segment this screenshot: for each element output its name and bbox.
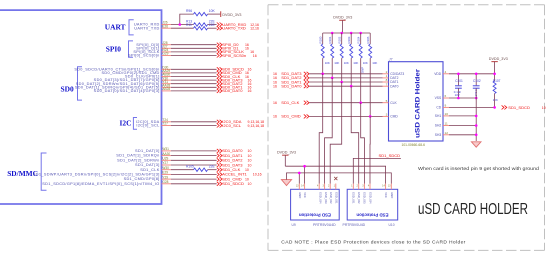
svg-text:SD0: SD0 bbox=[61, 85, 74, 94]
svg-text:10: 10 bbox=[245, 177, 249, 181]
junction bbox=[298, 172, 301, 175]
pin U29 SD1_DAT[2]_SDRWn bbox=[117, 157, 171, 163]
svg-text:3: 3 bbox=[386, 113, 388, 117]
net label SD0_DAT2 bbox=[217, 81, 252, 86]
pin J27 SPI[0]_D[1] bbox=[136, 45, 171, 51]
svg-text:SPI0_SCS0n: SPI0_SCS0n bbox=[222, 53, 246, 58]
svg-text:When card is inserted pin 9 ge: When card is inserted pin 9 get shorted … bbox=[418, 166, 540, 171]
page border (dashed) bbox=[268, 5, 545, 251]
junction bbox=[331, 77, 334, 80]
net label SD0_SDCD bbox=[217, 67, 252, 72]
wire bbox=[171, 47, 217, 49]
wire bbox=[171, 83, 217, 85]
svg-text:UART0_TXD: UART0_TXD bbox=[222, 26, 246, 31]
svg-text:VCC: VCC bbox=[384, 192, 388, 198]
svg-text:R105: R105 bbox=[186, 165, 194, 169]
pin T27 I2C[0]_SCL bbox=[136, 122, 171, 128]
svg-text:10K: 10K bbox=[344, 61, 349, 65]
svg-text:6: 6 bbox=[445, 94, 447, 98]
ground bbox=[471, 142, 481, 147]
svg-text:VSS: VSS bbox=[435, 96, 442, 100]
svg-text:CMD: CMD bbox=[390, 115, 398, 119]
pin AB30 SD0_CLK/GP0[1] bbox=[125, 73, 171, 79]
svg-text:16: 16 bbox=[273, 101, 277, 105]
wire pull-up column bbox=[341, 58, 343, 82]
resistor R11 bbox=[186, 23, 215, 30]
pin 1 DAT2 bbox=[383, 74, 399, 80]
svg-text:R100: R100 bbox=[319, 36, 323, 43]
svg-text:ESD_IO3: ESD_IO3 bbox=[363, 192, 367, 204]
net label SD1_DAT0 bbox=[217, 148, 252, 153]
no-connect X bbox=[334, 177, 337, 180]
net label SD1_CLK bbox=[273, 100, 309, 105]
svg-text:DVDD_3V3: DVDD_3V3 bbox=[277, 150, 296, 154]
svg-text:ESD_IO4: ESD_IO4 bbox=[318, 192, 322, 204]
junction bbox=[321, 73, 324, 76]
pin J28 SPI[0]_D[0] bbox=[136, 41, 171, 47]
pin 6 VSS bbox=[435, 94, 449, 100]
svg-text:10V: 10V bbox=[455, 93, 460, 97]
pin T24 I2C[0]_SDA bbox=[136, 118, 171, 124]
junction bbox=[475, 124, 478, 127]
svg-text:16: 16 bbox=[273, 115, 277, 119]
wire pull-up column bbox=[331, 58, 333, 78]
bracket SD/MMC group bbox=[41, 153, 46, 190]
wire bbox=[309, 115, 382, 117]
wire bbox=[171, 55, 217, 57]
svg-text:GND: GND bbox=[390, 192, 394, 198]
wire SH to ground bbox=[449, 134, 476, 136]
wire bbox=[171, 169, 194, 171]
wire bbox=[309, 77, 382, 79]
processor block body U14 bbox=[0, 10, 162, 204]
net label SD0_DAT3 bbox=[217, 77, 252, 82]
net label SD1_DAT3 bbox=[273, 71, 309, 76]
svg-text:SPI0: SPI0 bbox=[106, 45, 122, 54]
svg-text:10K: 10K bbox=[493, 98, 498, 102]
net label SD1_DAT2 bbox=[273, 75, 309, 80]
svg-text:10K: 10K bbox=[325, 61, 330, 65]
svg-text:SD1_DAT[2]_SDRWn: SD1_DAT[2]_SDRWn bbox=[117, 158, 160, 162]
connector J7 uSD CARD Holder body bbox=[389, 62, 444, 141]
wire bbox=[309, 81, 382, 83]
power DVDD_3V3 bbox=[221, 11, 242, 17]
junction bbox=[331, 32, 334, 35]
svg-text:10: 10 bbox=[248, 159, 252, 163]
bracket UART group bbox=[129, 20, 134, 35]
svg-text:SD0_DAT0: SD0_DAT0 bbox=[222, 88, 243, 93]
wire to ESD bbox=[319, 74, 323, 184]
pin AA28 SD0_DAT[1]_SDIRQn/GP0[4]/SD1_DAT[5] bbox=[75, 84, 171, 90]
wire U9 GND bbox=[298, 173, 300, 184]
net label SD1_SDCD bbox=[502, 105, 546, 110]
svg-text:C101: C101 bbox=[455, 79, 463, 83]
ESD protection U10 body bbox=[347, 189, 398, 220]
junction bbox=[457, 73, 460, 76]
svg-text:101-00660-68-6: 101-00660-68-6 bbox=[402, 143, 426, 147]
wire bbox=[208, 24, 217, 26]
pin G29 SPI[0]_SCS[0]n bbox=[128, 52, 171, 58]
bracket I2C group bbox=[133, 118, 137, 130]
svg-text:10K: 10K bbox=[334, 61, 339, 65]
svg-text:CAD NOTE : Place ESD Protectio: CAD NOTE : Place ESD Protection devices … bbox=[281, 239, 465, 245]
wire bbox=[171, 68, 217, 70]
svg-text:SD0_DAT[0]/SD1_DAT[4]/GP0[3]: SD0_DAT[0]/SD1_DAT[4]/GP0[3] bbox=[94, 89, 160, 93]
pin 7 DAT0 bbox=[383, 82, 399, 88]
wire bbox=[171, 86, 217, 88]
wire ground trunk bbox=[475, 88, 477, 141]
svg-text:uSD CARD Holder: uSD CARD Holder bbox=[415, 69, 422, 138]
svg-text:SD1_SDWP/UART3_DSRn/SPI[0]_SCS: SD1_SDWP/UART3_DSRn/SPI[0]_SCS[2]n/I2C[2… bbox=[33, 173, 160, 177]
pin stub bbox=[368, 184, 370, 190]
net label SD1_DAT1 bbox=[273, 79, 309, 84]
svg-text:PRTR5V0U4D: PRTR5V0U4D bbox=[313, 223, 336, 227]
svg-text:GND: GND bbox=[298, 192, 302, 198]
net label SPI0_SCLK bbox=[217, 49, 254, 54]
wire pull-up column bbox=[369, 58, 371, 116]
wire bbox=[171, 155, 217, 157]
svg-text:CLK: CLK bbox=[390, 101, 397, 105]
net label SPI0_SCS0n bbox=[217, 53, 257, 58]
svg-text:7: 7 bbox=[386, 82, 388, 86]
pin Y29 SD1_CMD/GP0[8] bbox=[124, 175, 171, 181]
junction bbox=[303, 165, 306, 168]
svg-text:ESD_IO3: ESD_IO3 bbox=[324, 192, 328, 204]
svg-text:10: 10 bbox=[445, 112, 449, 116]
wire CD row bbox=[449, 106, 495, 108]
wire to ESD bbox=[330, 82, 342, 184]
svg-text:SD1_DAT[3]: SD1_DAT[3] bbox=[135, 163, 160, 167]
junction bbox=[457, 97, 460, 100]
svg-text:I2C0_SCL: I2C0_SCL bbox=[222, 123, 241, 128]
pin stub bbox=[328, 184, 330, 190]
wire SH to ground bbox=[449, 115, 476, 117]
svg-text:10: 10 bbox=[248, 163, 252, 167]
svg-text:R103: R103 bbox=[347, 36, 351, 43]
net label SD0_CLK bbox=[217, 74, 249, 79]
svg-text:R101: R101 bbox=[328, 36, 332, 43]
net label SD1_CMD bbox=[217, 176, 249, 181]
junction bbox=[359, 32, 362, 35]
wire U9 VCC bbox=[304, 166, 306, 183]
resistor R107 bbox=[493, 74, 501, 108]
power DVDD_3V3 (VDD) bbox=[489, 57, 508, 74]
svg-text:R102: R102 bbox=[338, 36, 342, 43]
svg-text:DVDD_3V3: DVDD_3V3 bbox=[489, 57, 508, 61]
pin E29 SD1_SDWP/UART3_DSRn/SPI[0]_SCS[2]n/I2C[2]_SDA/GP1[3] bbox=[33, 171, 171, 177]
junction bbox=[475, 73, 478, 76]
svg-text:I2C[0]_SCL: I2C[0]_SCL bbox=[136, 124, 160, 128]
wire bbox=[171, 27, 194, 29]
pin D30 SD0_SDCD/UART0_CTSn/SPI[1]_SCS[0]n bbox=[74, 66, 171, 72]
resistor R101 pull-up bbox=[328, 33, 339, 65]
net label UART0_RXD bbox=[217, 22, 259, 27]
bracket SD0 group bbox=[78, 67, 83, 100]
svg-text:U10: U10 bbox=[389, 223, 395, 227]
net label SD1_DAT1 bbox=[217, 153, 252, 158]
pin stub bbox=[334, 184, 336, 190]
svg-text:10: 10 bbox=[248, 182, 252, 186]
junction bbox=[475, 97, 478, 100]
junction bbox=[475, 134, 478, 137]
power DVDD_3V3 (ESD) bbox=[277, 150, 296, 166]
resistor R104 pull-up bbox=[357, 33, 368, 65]
wire bbox=[171, 76, 217, 78]
svg-text:SH1: SH1 bbox=[435, 114, 442, 118]
pin stub bbox=[301, 184, 304, 190]
ground (ESD) bbox=[281, 180, 291, 186]
pin E26 UART0_TXD bbox=[134, 24, 171, 30]
net label SD1_SDCD bbox=[217, 181, 252, 186]
net label SD1_CMD bbox=[273, 114, 309, 119]
ESD protection U9 body bbox=[291, 189, 340, 220]
svg-text:SPI[0]_SCS[0]n: SPI[0]_SCS[0]n bbox=[128, 54, 160, 58]
wire bbox=[171, 72, 217, 74]
net label UART0_TXD bbox=[217, 26, 259, 31]
svg-text:16: 16 bbox=[273, 85, 277, 89]
net label SD1_DAT2 bbox=[217, 158, 252, 163]
svg-text:R11: R11 bbox=[186, 23, 192, 27]
wire bbox=[171, 150, 217, 152]
pin stub bbox=[351, 184, 353, 190]
svg-text:SD1_DAT[0]: SD1_DAT[0] bbox=[135, 149, 160, 153]
net label ACCEL_INT1 bbox=[217, 172, 262, 177]
resistor R105 bbox=[186, 165, 215, 172]
capacitor C101 bbox=[454, 74, 463, 98]
svg-text:R104: R104 bbox=[357, 36, 361, 43]
pin stub bbox=[382, 184, 385, 190]
svg-text:SD1_DAT[1]_SDIRQn: SD1_DAT[1]_SDIRQn bbox=[116, 154, 159, 158]
svg-text:UART: UART bbox=[105, 23, 126, 32]
resistor R103 pull-up bbox=[347, 33, 358, 65]
pin J26 UART0_RXD bbox=[134, 21, 171, 27]
wire pull-up column bbox=[322, 58, 324, 74]
svg-text:SD1_DAT0: SD1_DAT0 bbox=[281, 84, 302, 89]
wire bbox=[171, 79, 217, 81]
svg-text:10,16: 10,16 bbox=[253, 173, 262, 177]
junction bbox=[359, 101, 362, 104]
wire bbox=[171, 51, 217, 53]
pin Y30 SD0_DAT[3]/SD1_DAT[7]/GP0[6] bbox=[94, 76, 171, 82]
svg-text:ESD Protection: ESD Protection bbox=[356, 212, 388, 217]
pin 2 CD/DAT3 bbox=[383, 70, 405, 76]
svg-text:10: 10 bbox=[248, 154, 252, 158]
wire bbox=[208, 27, 217, 29]
pin 4 VDD bbox=[434, 70, 449, 76]
svg-text:SD1_SDCD: SD1_SDCD bbox=[222, 181, 244, 186]
svg-text:DAT0: DAT0 bbox=[390, 84, 398, 88]
svg-text:SD1_CMD: SD1_CMD bbox=[281, 114, 300, 119]
svg-text:16: 16 bbox=[248, 89, 252, 93]
bracket SPI0 group bbox=[129, 41, 134, 57]
junction bbox=[369, 115, 372, 118]
wire bbox=[309, 73, 382, 75]
svg-text:ESD_IO1: ESD_IO1 bbox=[335, 192, 339, 204]
svg-text:ESD_IO4: ESD_IO4 bbox=[368, 192, 372, 204]
net label SD0_DAT1 bbox=[217, 85, 252, 90]
wire 3V3 rail to ESD VCC bbox=[285, 166, 385, 183]
junction bbox=[350, 85, 353, 88]
svg-text:SD1_SDCD/GP1[8]/EDMA_EVT1/SPI[: SD1_SDCD/GP1[8]/EDMA_EVT1/SPI[0]_SCS[1]n… bbox=[42, 182, 159, 186]
resistor R100 pull-up bbox=[319, 33, 330, 65]
net label SD1_CLK bbox=[217, 167, 249, 172]
svg-text:SD1_SDCD: SD1_SDCD bbox=[508, 105, 530, 110]
svg-text:10: 10 bbox=[542, 106, 546, 110]
svg-text:ESD Protection: ESD Protection bbox=[299, 212, 331, 217]
junction bbox=[340, 32, 343, 35]
capacitor C102 bbox=[473, 74, 481, 97]
svg-text:C102: C102 bbox=[473, 79, 481, 83]
svg-text:R96: R96 bbox=[186, 9, 192, 13]
svg-text:PRTR5V0U4D: PRTR5V0U4D bbox=[343, 223, 366, 227]
net label SD0_DAT0 bbox=[217, 88, 252, 93]
pin AA29 SD0_CMD/GP0[2]/SD1_CMD bbox=[101, 69, 171, 75]
svg-text:VCC: VCC bbox=[303, 192, 307, 198]
pin G28 SD1_SDCD/GP1[8]/EDMA_EVT1/SPI[0]_SCS[1]n/TIM4_IO bbox=[42, 180, 171, 186]
wire VDD rail bbox=[449, 73, 495, 75]
net label SD1_DAT3 bbox=[217, 162, 252, 167]
pin Y31 SD0_DAT[2]_SDRWn/SD1_DAT[6]/GP0[5] bbox=[76, 80, 171, 86]
wire bbox=[171, 164, 217, 166]
svg-text:11: 11 bbox=[445, 122, 448, 126]
net label SD1_SDCD (to ESD) bbox=[353, 153, 401, 183]
wire bbox=[171, 159, 217, 161]
svg-text:uSD CARD HOLDER: uSD CARD HOLDER bbox=[418, 201, 528, 218]
svg-text:22E: 22E bbox=[209, 23, 216, 27]
wire bbox=[171, 24, 194, 26]
pin 9 CD bbox=[436, 104, 449, 110]
wire bbox=[171, 121, 217, 123]
pin stub bbox=[388, 184, 391, 190]
svg-text:5: 5 bbox=[386, 99, 388, 103]
pin 11 SH2 bbox=[435, 122, 449, 128]
svg-text:12: 12 bbox=[445, 131, 449, 135]
pin 8 DAT1 bbox=[383, 78, 399, 84]
svg-text:10K: 10K bbox=[363, 61, 368, 65]
pin N24 SPI[0]_SCLK bbox=[133, 48, 171, 54]
svg-text:DNP: DNP bbox=[361, 67, 365, 73]
wire bbox=[208, 13, 221, 15]
net label SD0_CMD bbox=[217, 70, 249, 75]
svg-text:10K: 10K bbox=[372, 61, 377, 65]
power DVDD_3V3 (pull-up rail) bbox=[333, 15, 352, 33]
pin W31 SD1_DAT[0] bbox=[135, 147, 171, 153]
wire to ESD bbox=[351, 86, 359, 183]
junction bbox=[475, 115, 478, 118]
svg-text:10K: 10K bbox=[209, 9, 216, 13]
svg-text:DVDD_3V3: DVDD_3V3 bbox=[333, 15, 352, 19]
svg-text:UART0_TXD: UART0_TXD bbox=[134, 26, 159, 30]
svg-text:SD1_CMD/GP0[8]: SD1_CMD/GP0[8] bbox=[124, 177, 160, 181]
wire bbox=[309, 102, 382, 104]
pin W30 SD1_CLK bbox=[140, 166, 171, 172]
svg-text:VDD: VDD bbox=[434, 72, 442, 76]
resistor R13 bbox=[186, 19, 215, 26]
wire bbox=[171, 125, 217, 127]
svg-text:ESD_IO2: ESD_IO2 bbox=[357, 192, 361, 204]
wire bbox=[171, 173, 217, 175]
net label I2C0_SCL bbox=[217, 123, 264, 128]
pin stub bbox=[357, 184, 359, 190]
svg-text:SD1_CLK: SD1_CLK bbox=[281, 100, 299, 105]
wire to ESD bbox=[325, 78, 333, 184]
pin AA30 SD1_DAT[1]_SDIRQn bbox=[116, 152, 171, 158]
resistor R96 bbox=[186, 9, 215, 16]
svg-text:ESD_IO1: ESD_IO1 bbox=[352, 192, 356, 204]
wire SH to ground bbox=[449, 125, 476, 127]
junction bbox=[493, 106, 496, 109]
pin stub bbox=[296, 184, 299, 190]
junction bbox=[179, 23, 182, 26]
svg-text:U9: U9 bbox=[292, 223, 296, 227]
pin stub bbox=[322, 184, 324, 190]
svg-text:I2C: I2C bbox=[120, 119, 132, 128]
wire VSS to caps bbox=[449, 97, 476, 99]
junction bbox=[493, 73, 496, 76]
svg-text:SH2: SH2 bbox=[435, 124, 442, 128]
resistor R106 pull-up bbox=[366, 33, 377, 65]
wire to ESD bbox=[361, 103, 365, 184]
wire bbox=[171, 90, 217, 92]
svg-text:10: 10 bbox=[248, 149, 252, 153]
pin 12 SH3 bbox=[435, 131, 449, 137]
wire bbox=[171, 178, 217, 180]
wire pull-up column bbox=[350, 58, 352, 86]
wire to ESD bbox=[369, 116, 371, 183]
pin stub bbox=[362, 184, 364, 190]
wire pull-up column bbox=[360, 58, 362, 102]
svg-text:22E: 22E bbox=[209, 165, 216, 169]
resistor R102 pull-up bbox=[338, 33, 349, 65]
pin Y27 SD1_DAT[3] bbox=[135, 161, 171, 167]
svg-text:12,16: 12,16 bbox=[250, 27, 259, 31]
svg-text:16: 16 bbox=[245, 47, 249, 51]
net label SPI0_D1 bbox=[217, 46, 249, 51]
wire bbox=[180, 14, 194, 24]
junction bbox=[350, 32, 353, 35]
wire bbox=[208, 169, 217, 171]
net label SD1_DAT0 bbox=[273, 84, 309, 89]
svg-text:9: 9 bbox=[445, 104, 447, 108]
pin 10 SH1 bbox=[435, 112, 449, 118]
net label I2C0_SDA bbox=[217, 119, 264, 124]
svg-text:SD1_CLK: SD1_CLK bbox=[140, 168, 160, 172]
svg-text:ESD_IO2: ESD_IO2 bbox=[329, 192, 333, 204]
net label SPI0_D0 bbox=[217, 42, 249, 47]
svg-text:9,13,16,18: 9,13,16,18 bbox=[248, 124, 265, 128]
svg-text:R106: R106 bbox=[366, 36, 370, 43]
svg-text:16: 16 bbox=[253, 54, 257, 58]
wire pull-up bus bbox=[323, 32, 371, 34]
pin AB28 SD0_DAT[0]/SD1_DAT[4]/GP0[3] bbox=[94, 87, 171, 93]
wire bbox=[309, 85, 382, 87]
wire bbox=[171, 183, 217, 185]
svg-text:SH3: SH3 bbox=[435, 133, 442, 137]
junction bbox=[340, 81, 343, 84]
wire bbox=[171, 44, 217, 46]
pin stub bbox=[317, 184, 319, 190]
svg-text:CD: CD bbox=[436, 106, 441, 110]
svg-text:DVDD_3V3: DVDD_3V3 bbox=[222, 13, 241, 17]
svg-text:4: 4 bbox=[445, 70, 447, 74]
svg-text:SD1_SDCD: SD1_SDCD bbox=[379, 153, 401, 158]
svg-text:10K: 10K bbox=[353, 61, 358, 65]
pin 3 CMD bbox=[383, 113, 399, 119]
wire ground rail to ESD GND bbox=[287, 173, 392, 184]
pin 5 CLK bbox=[383, 99, 398, 105]
